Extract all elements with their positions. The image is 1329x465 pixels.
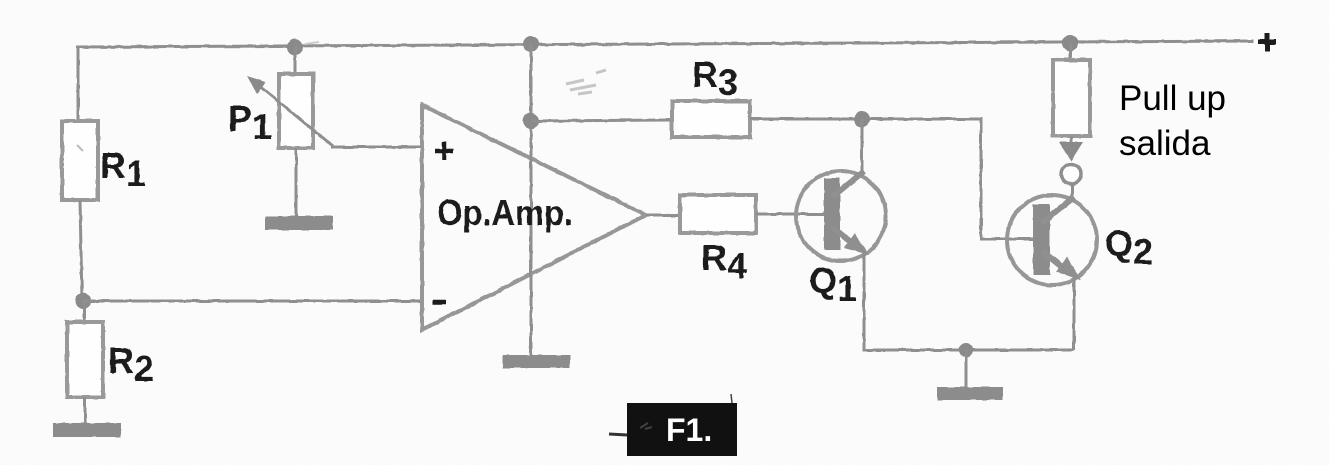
svg-text:F1.: F1. xyxy=(666,412,712,448)
wire pull-up to arrow xyxy=(1070,136,1073,144)
node junction dot at Q1 collector xyxy=(854,111,870,127)
node junction dot on rail above op-amp xyxy=(523,36,539,52)
potentiometer P1 xyxy=(279,74,313,148)
wire R2 to ground xyxy=(84,397,87,424)
resistor R1 xyxy=(62,121,98,200)
node + terminal label xyxy=(1258,33,1276,51)
transistor Q1 xyxy=(796,171,886,261)
wire P1 to ground xyxy=(295,148,298,217)
wire node A to R2 xyxy=(83,301,86,323)
wire left vertical from rail to R1 xyxy=(77,46,80,122)
node junction dot emitter ground xyxy=(959,343,973,357)
node junction dot feedback xyxy=(523,113,539,129)
wire R4 to Q1 base xyxy=(756,213,826,216)
svg-text:Pull up: Pull up xyxy=(1119,79,1226,118)
ground under P1 xyxy=(265,216,333,230)
op-amp U1 xyxy=(422,105,646,330)
P1 wiper arrow xyxy=(258,85,333,146)
pin + of op-amp xyxy=(435,142,453,160)
resistor R3 xyxy=(672,101,750,137)
wire Q1 emitter down and across xyxy=(864,250,1074,350)
svg-text:salida: salida xyxy=(1119,124,1211,163)
wire output terminal to Q2 collector xyxy=(1071,184,1074,200)
resistor R2 xyxy=(67,322,103,397)
wire dot down to Q1 collector xyxy=(861,119,864,176)
wire rail to pull-up resistor xyxy=(1069,43,1072,61)
ground under emitters xyxy=(937,387,1003,400)
node open output terminal xyxy=(1061,164,1081,184)
node junction dot on rail above pull-up xyxy=(1062,35,1078,51)
resistor R4 xyxy=(680,195,756,233)
pin - of op-amp xyxy=(433,300,446,305)
label F1 box xyxy=(627,403,737,456)
ground under R2 xyxy=(53,423,121,437)
transistor Q2 xyxy=(1007,195,1097,285)
svg-text:Op.Amp.: Op.Amp. xyxy=(437,192,573,233)
wire node A to op-amp inverting input xyxy=(83,300,422,303)
ground under op-amp xyxy=(503,355,570,368)
smudge artifacts xyxy=(566,80,596,94)
wire rail to P1 xyxy=(294,46,297,75)
wire Q2 emitter down xyxy=(1073,275,1076,350)
wire rail through op-amp to ground xyxy=(530,44,533,356)
node junction dot on rail above P1 xyxy=(287,39,303,55)
wire R1 bottom to node A xyxy=(80,200,82,301)
wire dot to ground xyxy=(965,350,968,388)
resistor pull-up xyxy=(1053,60,1090,136)
wire op-amp output to R4 xyxy=(646,214,680,217)
wire top power rail xyxy=(76,41,1254,47)
wire R3 to Q2 base corner xyxy=(750,119,1033,239)
wire P1 wiper to op-amp non-inverting input xyxy=(331,146,422,149)
wire feedback node to R3 xyxy=(531,120,672,121)
arrow output xyxy=(1059,142,1083,161)
node A junction dot xyxy=(75,293,91,309)
